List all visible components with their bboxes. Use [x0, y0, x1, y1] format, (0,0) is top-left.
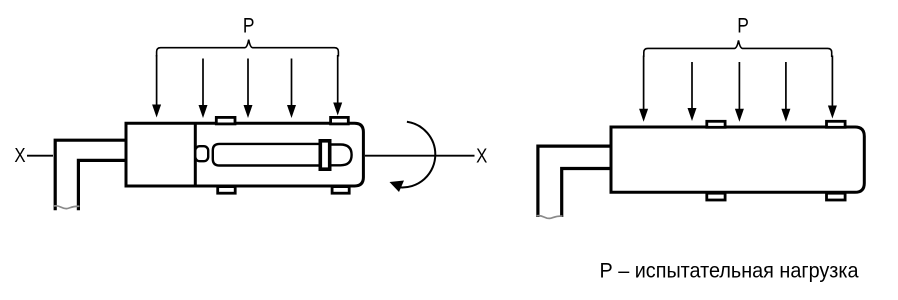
svg-text:X: X — [476, 146, 487, 168]
svg-text:Р – испытательная нагрузка: Р – испытательная нагрузка — [600, 260, 859, 283]
svg-text:P: P — [243, 15, 255, 38]
svg-text:X: X — [14, 145, 25, 167]
svg-text:P: P — [737, 15, 749, 38]
